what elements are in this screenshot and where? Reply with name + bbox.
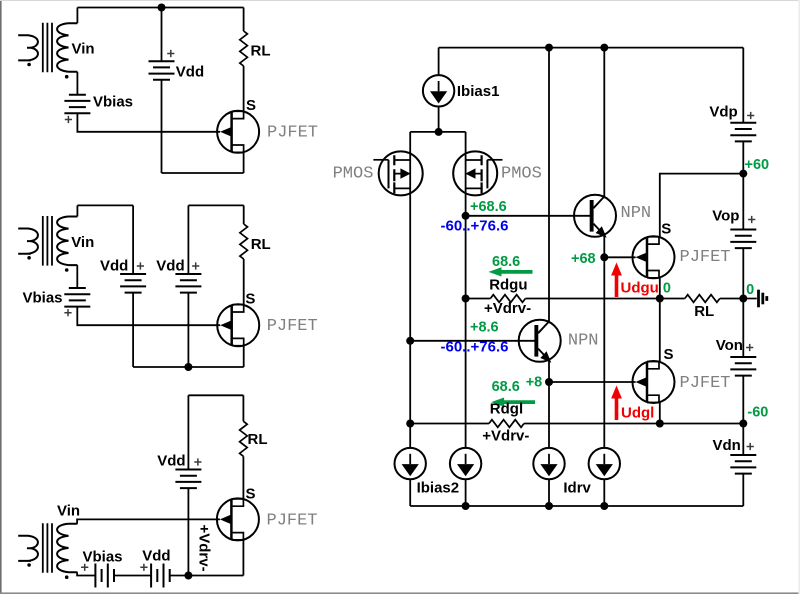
wire Vdd2a bottom lead (132, 293, 134, 367)
label Udgu (red) (621, 280, 659, 297)
resistor Rdgu (490, 295, 525, 303)
wire Vdd2a top lead (132, 205, 134, 274)
svg-text:Vdd: Vdd (157, 452, 185, 469)
wire top rail (right circuit) (439, 47, 744, 49)
label Vbias (circuit 2) (23, 289, 63, 306)
label Vdd right (circuit 2) (156, 257, 184, 274)
battery Vop (730, 230, 756, 249)
current source Ibias2 left (395, 448, 426, 479)
battery Vbias (circuit 1) (64, 95, 90, 114)
svg-text:PJFET: PJFET (267, 511, 318, 530)
label Vdd vertical (circuit 3) (157, 452, 185, 469)
label 68.6 lower (green) (492, 379, 520, 395)
svg-text:S: S (664, 346, 674, 363)
svg-text:Vin: Vin (72, 41, 95, 58)
current source Idrv right (589, 448, 620, 479)
node -60 junction right (739, 420, 747, 428)
frame left border (0, 0, 2, 594)
label Idrv (563, 480, 591, 497)
wire right rail segment 1 (742, 48, 744, 123)
wire right rail segment 4 (742, 376, 744, 455)
plus mark Vdp (747, 112, 754, 119)
wire right rail segment 3 (742, 248, 744, 357)
wire bottom rail (right circuit) (410, 505, 743, 507)
svg-text:RL: RL (694, 303, 714, 320)
label Vdd left (circuit 2) (100, 257, 128, 274)
node circuit1 top rail junction (158, 4, 166, 12)
wire -60 rail left segment (410, 423, 489, 425)
svg-text:+8.6: +8.6 (470, 320, 499, 336)
wire lower PJFET drain to -60 rail (659, 403, 661, 424)
wire PJFET2 drain to bottom rail (243, 346, 245, 367)
ground symbol (743, 290, 767, 308)
resistor RL (circuit 2) (240, 224, 248, 259)
plus mark Vbias (circuit 1) (65, 116, 72, 123)
svg-text:+60: +60 (745, 157, 770, 173)
resistor RL (circuit 3) (240, 421, 248, 456)
wire T1 secondary bottom to Vbias (76, 72, 78, 95)
wire CS3 bottom lead (548, 479, 550, 506)
plus mark Vdd horizontal (circuit 3) (140, 564, 147, 571)
battery Vdd horizontal (circuit 3) (151, 564, 170, 588)
transistor PJFET (circuit 2) (217, 304, 259, 346)
label Vbias (circuit 1) (93, 93, 133, 110)
label S (circuit 1 PJFET source) (246, 97, 256, 114)
label 68.6 upper (green) (492, 254, 520, 270)
svg-text:68.6: 68.6 (492, 379, 520, 395)
svg-text:0: 0 (663, 281, 671, 297)
wire Vdd2b top lead (187, 205, 189, 274)
node bottom rail junction 1 (462, 502, 470, 510)
svg-text:Von: Von (716, 337, 743, 354)
svg-text:Idrv: Idrv (563, 480, 591, 497)
wire Vdd1 bottom lead (161, 80, 163, 173)
wire circuit1 top rail (77, 7, 243, 9)
wire upper PJFET source to +60 node (660, 174, 744, 237)
label RL (right circuit) (694, 303, 714, 320)
wire upper PJFET drain to 0 node (659, 278, 661, 299)
svg-text:Vbias: Vbias (23, 289, 63, 306)
svg-text:S: S (246, 486, 256, 503)
label +Vdrv- lower (482, 428, 529, 445)
svg-text:Vdp: Vdp (709, 103, 737, 120)
wire RL3 to PJFET source (242, 456, 244, 499)
node 0 junction left (656, 295, 664, 303)
svg-text:RL: RL (251, 43, 271, 60)
transistor PJFET upper right (J4) (633, 236, 675, 278)
label S (upper right PJFET) (661, 221, 671, 238)
transistor PMOS right (U2) (453, 151, 502, 195)
node bottom rail junction 2 (545, 502, 553, 510)
label Ibias1 (457, 83, 500, 100)
battery Vbias (circuit 3) (95, 564, 114, 588)
wire RL right lead-in (660, 298, 685, 300)
label PMOS (left) (333, 165, 374, 184)
wire Vdd3 vertical bottom lead (187, 488, 189, 575)
label Rdgl (490, 401, 523, 418)
wire PMOS sources rail (410, 131, 465, 133)
node top rail junction B (600, 44, 608, 52)
wire CS1 bottom lead (409, 479, 411, 506)
current source Idrv left (533, 448, 564, 479)
svg-text:0: 0 (746, 282, 754, 298)
svg-text:PJFET: PJFET (267, 317, 318, 336)
label -60 (green) (747, 405, 768, 421)
node bottom rail junction 3 (600, 502, 608, 510)
label Vop (712, 207, 739, 224)
label RL (circuit 1) (251, 43, 271, 60)
arrow Udgl (red) (611, 386, 622, 421)
node +68.6 junction (462, 212, 470, 220)
label -60..+76.6 lower (blue) (441, 339, 509, 356)
wire -60 rail right segment (524, 423, 743, 425)
label PJFET (circuit 1) (267, 124, 318, 143)
wire Vdd3 top lead (187, 395, 189, 469)
svg-text:RL: RL (248, 431, 268, 448)
svg-text:Udgl: Udgl (621, 404, 654, 421)
label NPN (upper) (621, 204, 652, 223)
transistor PJFET (circuit 1) (217, 111, 259, 153)
label PJFET (lower right) (680, 374, 731, 393)
svg-text:S: S (246, 97, 256, 114)
svg-text:Vbias: Vbias (83, 549, 123, 566)
node top rail junction A (545, 44, 553, 52)
wire upper NPN base (466, 215, 590, 217)
battery Vdd left (circuit 2) (120, 274, 146, 293)
wire RL1 top lead (243, 8, 245, 32)
wire lower PJFET gate (549, 381, 636, 383)
plus mark Vdd (circuit 1) (167, 50, 174, 57)
wire Ibias1 to PMOS pair (438, 107, 440, 132)
label RL (circuit 3) (248, 431, 268, 448)
wire T2 secondary top to rail (76, 205, 78, 216)
wire Vbias to gate (circuit 2) (77, 307, 220, 326)
battery Vdp (730, 123, 756, 142)
wire Vdd1 top lead (161, 8, 163, 62)
wire PJFET3 drain to bottom rail (242, 540, 244, 576)
svg-text:NPN: NPN (621, 204, 652, 223)
svg-text:-60..+76.6: -60..+76.6 (441, 218, 509, 235)
label +Vdrv- (circuit 3, rotated) (196, 525, 213, 572)
plus mark Von (746, 344, 753, 351)
label +68.6 (green) (470, 199, 507, 215)
wire RL1 to PJFET source (243, 66, 245, 111)
battery Vdn (730, 455, 756, 474)
wire circuit2 bottom rail (133, 366, 244, 368)
node +60 junction (739, 170, 747, 178)
plus mark Vbias (circuit 3) (81, 564, 88, 571)
svg-text:-60: -60 (747, 405, 768, 421)
wire CS4 bottom lead (603, 479, 605, 506)
node 0 junction right (739, 295, 747, 303)
wire Ibias1 top lead (438, 48, 440, 76)
label +60 (green) (745, 157, 770, 173)
svg-text:Vdd: Vdd (100, 257, 128, 274)
svg-text:Vdd: Vdd (142, 547, 170, 564)
svg-text:Vin: Vin (71, 234, 94, 251)
svg-text:+Vdrv-: +Vdrv- (484, 300, 531, 317)
battery Von (730, 357, 756, 376)
svg-text:S: S (661, 221, 671, 238)
node -60 rail junction at PJFET drain (656, 420, 664, 428)
wire Vbias to gate (circuit 1) (77, 113, 220, 132)
plus mark Vdn (747, 443, 754, 450)
wire right rail segment 2 (742, 141, 744, 229)
node circuit2 bottom junction (184, 363, 192, 371)
transistor PJFET (circuit 3) (217, 498, 259, 540)
svg-text:S: S (245, 290, 255, 307)
wire mid rail right segment (525, 298, 659, 300)
arrow 68.6 lower current (green) (491, 398, 535, 407)
node +8 junction (545, 378, 553, 386)
transistor PMOS left (U1) (373, 151, 422, 195)
wire T3 secondary bottom lead (77, 572, 95, 575)
svg-text:68.6: 68.6 (492, 254, 520, 270)
wire left PMOS vertical (409, 132, 411, 448)
current source Ibias2 right (450, 448, 481, 479)
svg-text:Vbias: Vbias (93, 93, 133, 110)
label +8.6 (green) (470, 320, 499, 336)
label 0 right (green) (746, 282, 754, 298)
svg-text:PJFET: PJFET (267, 124, 318, 143)
transistor NPN upper (Q1) (574, 195, 616, 237)
wire upper NPN collector riser (603, 48, 605, 197)
frame top border (0, 0, 800, 1)
svg-text:PMOS: PMOS (501, 165, 542, 184)
wire circuit1 bottom rail (162, 172, 244, 174)
wire lower NPN collector riser (548, 48, 550, 322)
wire lower NPN emitter chain (548, 360, 550, 448)
wire CS2 bottom lead (465, 479, 467, 506)
svg-text:Rdgl: Rdgl (490, 401, 523, 418)
wire circuit2 top rail right (188, 204, 243, 206)
label Ibias2 (417, 480, 460, 497)
arrow 68.6 upper current (green) (489, 267, 533, 276)
plus mark Vdd vertical (circuit 3) (194, 458, 201, 465)
svg-text:Rdgu: Rdgu (489, 276, 527, 293)
label PMOS (right) (501, 165, 542, 184)
wire Vdd2b bottom lead (187, 293, 189, 367)
label PJFET (circuit 2) (267, 317, 318, 336)
svg-text:+8: +8 (526, 374, 543, 390)
plus mark Vdd left (circuit 2) (137, 262, 144, 269)
label Udgl (red) (621, 404, 654, 421)
label NPN (lower) (568, 332, 599, 351)
wire upper PJFET gate (604, 256, 635, 258)
label +Vdrv- upper (484, 300, 531, 317)
svg-text:Vop: Vop (712, 207, 739, 224)
svg-text:+68.6: +68.6 (470, 199, 507, 215)
label S (lower right PJFET) (664, 346, 674, 363)
node +68 junction (600, 253, 608, 261)
plus mark Vdd right (circuit 2) (192, 262, 199, 269)
wire lower NPN base (410, 340, 534, 342)
wire upper NPN emitter chain (603, 235, 605, 448)
svg-text:PMOS: PMOS (333, 165, 374, 184)
label Vdn (713, 437, 741, 454)
svg-text:Vdd: Vdd (156, 257, 184, 274)
svg-text:NPN: NPN (568, 332, 599, 351)
label Vbias (circuit 3) (83, 549, 123, 566)
label -60..+76.6 upper (blue) (441, 218, 509, 235)
resistor RL (right circuit) (685, 295, 720, 303)
label 0 left (green) (663, 281, 671, 297)
svg-text:Vdn: Vdn (713, 437, 741, 454)
label Vdd (circuit 1) (176, 63, 204, 80)
svg-text:Ibias2: Ibias2 (417, 480, 460, 497)
label RL (circuit 2) (251, 236, 271, 253)
svg-text:Ibias1: Ibias1 (457, 83, 500, 100)
battery Vdd (circuit 1) (149, 61, 175, 80)
node -60 rail left junction (406, 420, 414, 428)
wire T1 secondary top to rail (76, 8, 78, 24)
wire lower PJFET source to 0 node (659, 299, 661, 362)
node Ibias1 output junction (435, 128, 443, 136)
wire mid rail left segment (466, 298, 491, 300)
label PJFET (circuit 3) (267, 511, 318, 530)
node lower NPN base junction (406, 337, 414, 345)
wire RL right lead-out (720, 298, 744, 300)
plus mark Vop (748, 216, 755, 223)
transformer T3 (18, 523, 77, 579)
wire RL3 top lead (242, 395, 244, 421)
label Vdp (709, 103, 737, 120)
svg-text:Udgu: Udgu (621, 280, 659, 297)
arrow Udgu (red) (611, 263, 622, 298)
frame bottom border (0, 592, 800, 594)
svg-text:+Vdrv-: +Vdrv- (482, 428, 529, 445)
label Vin (T3 secondary) (57, 502, 80, 519)
label +8 (green) (526, 374, 543, 390)
svg-text:+68: +68 (571, 251, 596, 267)
transformer T1 (18, 23, 77, 79)
label PJFET (upper right) (680, 248, 731, 267)
node circuit3 bottom junction (184, 572, 192, 580)
resistor Rdgl (489, 420, 524, 428)
battery Vbias (circuit 2) (64, 288, 90, 307)
wire Vbias to Vdd (circuit 3) (114, 575, 151, 577)
frame right border (798, 0, 800, 594)
transistor PJFET lower right (J5) (633, 361, 675, 403)
label S (circuit 2 PJFET source) (245, 290, 255, 307)
wire circuit3 top rail (188, 394, 243, 396)
wire PJFET1 drain to bottom rail (243, 152, 245, 173)
label Vin (T2 secondary) (71, 234, 94, 251)
svg-text:Vin: Vin (57, 502, 80, 519)
svg-text:+Vdrv-: +Vdrv- (196, 525, 213, 572)
transistor NPN lower (Q2) (519, 320, 561, 362)
label Vin (T1 secondary) (72, 41, 95, 58)
wire right rail segment 5 (742, 474, 744, 506)
wire RL2 to PJFET source (243, 259, 245, 305)
wire circuit3 bottom rail (170, 575, 244, 577)
battery Vdd vertical (circuit 3) (175, 470, 201, 489)
wire T3 secondary top to gate (77, 519, 220, 523)
wire right PMOS vertical (465, 132, 467, 448)
svg-text:PJFET: PJFET (680, 248, 731, 267)
wire T2 secondary bottom to Vbias (76, 265, 78, 288)
svg-text:PJFET: PJFET (680, 374, 731, 393)
label Vdd horizontal (circuit 3) (142, 547, 170, 564)
resistor RL (circuit 1) (240, 31, 248, 66)
label +68 (green) (571, 251, 596, 267)
plus mark Vbias (circuit 2) (64, 309, 71, 316)
wire circuit2 top rail left (77, 204, 133, 206)
label Rdgu (489, 276, 527, 293)
current source Ibias1 (423, 75, 454, 106)
svg-text:RL: RL (251, 236, 271, 253)
node Rdgu left junction (462, 295, 470, 303)
transformer T2 (18, 216, 77, 272)
label S (circuit 3 PJFET source) (246, 486, 256, 503)
svg-text:Vdd: Vdd (176, 63, 204, 80)
label Von (716, 337, 743, 354)
battery Vdd right (circuit 2) (175, 274, 201, 293)
wire RL2 top lead (243, 205, 245, 224)
